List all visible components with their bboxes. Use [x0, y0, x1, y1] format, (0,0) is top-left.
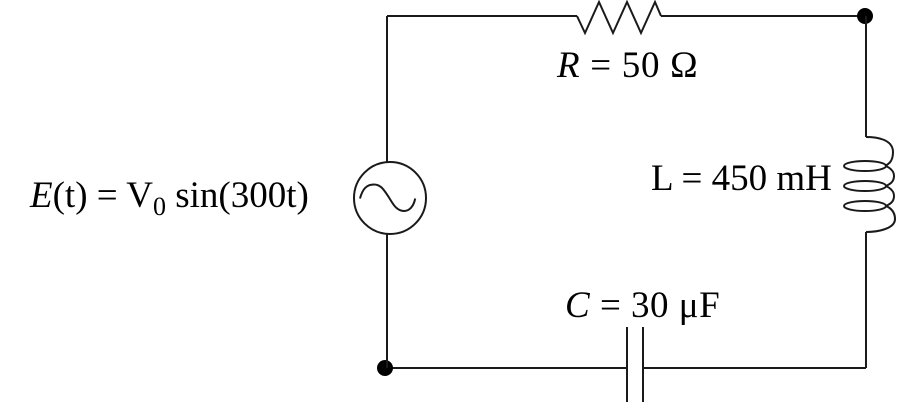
wire top-right horizontal: [661, 15, 865, 17]
AC source E circle: [354, 162, 426, 234]
node junction dot top-right: [857, 8, 873, 24]
svg-text:R = 50 Ω: R = 50 Ω: [556, 45, 698, 86]
wire top-left horizontal: [387, 15, 577, 17]
node junction dot bottom-left: [377, 360, 393, 376]
wire right upper vertical: [865, 16, 867, 137]
wire bottom-left horizontal: [385, 367, 627, 369]
inductor L coil: [844, 137, 895, 232]
svg-text:E(t) = V0 sin(300t): E(t) = V0 sin(300t): [29, 175, 309, 221]
resistor R = 50 ohm: [577, 2, 661, 33]
capacitor C plate right: [642, 327, 644, 402]
wire left lower vertical: [386, 234, 388, 368]
wire left upper vertical: [386, 16, 388, 162]
AC source sine wave: [360, 185, 415, 212]
wire bottom-right horizontal: [643, 367, 866, 369]
capacitor C plate left: [626, 327, 628, 402]
svg-text:C = 30 μF: C = 30 μF: [565, 285, 720, 326]
wire right lower vertical: [865, 232, 867, 368]
svg-text:L = 450 mH: L = 450 mH: [651, 158, 832, 199]
